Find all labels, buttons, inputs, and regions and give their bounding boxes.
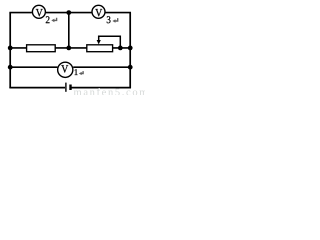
- resistor R1: [27, 45, 56, 52]
- wire mid row segment c: [113, 47, 131, 49]
- battery long plate: [65, 83, 67, 92]
- voltmeter V1: [58, 62, 73, 77]
- node junction mid right: [128, 46, 133, 51]
- wire middle vertical connector: [68, 13, 70, 48]
- node junction slider tap: [118, 46, 123, 51]
- wire mid row segment b: [55, 47, 86, 49]
- pilcrow after 2: [51, 18, 56, 23]
- pilcrow after 3: [112, 18, 117, 23]
- node junction mid center: [66, 46, 71, 51]
- rheostat R2 body: [87, 45, 113, 52]
- voltmeter V3: [92, 5, 105, 18]
- rheostat slider arrow: [97, 36, 121, 48]
- watermark manfen5.com: [74, 87, 150, 98]
- svg-text:manfen5.com: manfen5.com: [74, 87, 146, 95]
- wire mid row segment a: [9, 47, 26, 49]
- wire bottom left segment: [9, 87, 65, 89]
- wire lower row left segment: [9, 66, 57, 68]
- wire lower row right segment: [73, 66, 131, 68]
- wire right vertical: [129, 13, 131, 89]
- wire top left segment: [9, 12, 32, 14]
- wire top right segment: [105, 12, 131, 14]
- node junction lower right: [128, 65, 133, 70]
- battery short plate: [69, 85, 71, 91]
- label 3: [107, 16, 111, 23]
- wire left vertical: [9, 13, 11, 89]
- pilcrow after 1: [79, 71, 83, 75]
- wire top middle segment: [46, 12, 92, 14]
- wire bottom right segment: [71, 87, 131, 89]
- voltmeter V2: [32, 5, 45, 18]
- label 1: [75, 69, 78, 75]
- node junction mid left: [8, 46, 13, 51]
- label 2: [46, 16, 50, 23]
- node junction top: [66, 10, 71, 15]
- node junction lower left: [8, 65, 13, 70]
